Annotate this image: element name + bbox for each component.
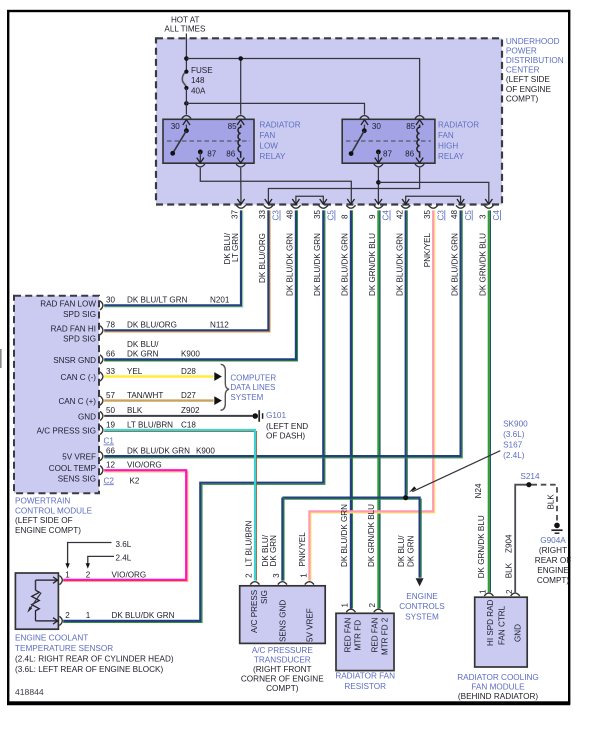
wire 42 DK BLU/DK GRN down to splice bbox=[406, 210, 408, 495]
svg-text:DK BLU/: DK BLU/ bbox=[127, 340, 159, 349]
low relay switch blade bbox=[173, 131, 187, 154]
svg-text:C1: C1 bbox=[104, 437, 115, 446]
wire 48 DK BLU/DK GRN to PCM 66 5V VREF bbox=[104, 210, 462, 457]
svg-text:C5: C5 bbox=[327, 210, 336, 221]
svg-text:2: 2 bbox=[368, 603, 377, 608]
svg-text:SPD SIG: SPD SIG bbox=[63, 335, 96, 344]
svg-text:87: 87 bbox=[383, 149, 393, 158]
exit arrow 3 bbox=[292, 199, 299, 204]
connector arc exit 3 bbox=[291, 205, 300, 208]
svg-text:33: 33 bbox=[258, 209, 267, 219]
svg-text:19: 19 bbox=[106, 420, 116, 429]
svg-text:3: 3 bbox=[272, 573, 281, 578]
wire fuse to low relay 30 bbox=[185, 88, 187, 115]
svg-text:148: 148 bbox=[191, 76, 205, 85]
svg-text:12: 12 bbox=[106, 461, 116, 470]
svg-text:DK GRN: DK GRN bbox=[269, 535, 278, 567]
exit arrow 4 bbox=[320, 199, 327, 204]
svg-text:DK BLU/DK GRN: DK BLU/DK GRN bbox=[396, 233, 405, 296]
svg-text:N201: N201 bbox=[210, 296, 230, 305]
junction at low relay 85 branch bbox=[238, 56, 243, 61]
fuse 148 40A bbox=[182, 72, 186, 88]
svg-text:37: 37 bbox=[231, 209, 240, 219]
svg-text:OF DASH): OF DASH) bbox=[266, 431, 305, 440]
svg-text:A/C PRESS SIG: A/C PRESS SIG bbox=[37, 426, 96, 435]
svg-text:SK900: SK900 bbox=[503, 420, 528, 429]
svg-text:PNK/YEL: PNK/YEL bbox=[298, 532, 307, 567]
svg-text:TRANSDUCER: TRANSDUCER bbox=[254, 655, 311, 664]
sensor pin1 internal lead bbox=[36, 579, 57, 581]
svg-text:DK BLU/DK GRN: DK BLU/DK GRN bbox=[127, 446, 190, 455]
svg-text:418844: 418844 bbox=[15, 687, 44, 697]
svg-text:SNSR GND: SNSR GND bbox=[53, 356, 96, 365]
high relay switch blade bbox=[351, 131, 364, 154]
svg-text:BLK: BLK bbox=[127, 406, 143, 415]
high relay pin 30 arrow bbox=[361, 120, 368, 125]
svg-text:GND: GND bbox=[78, 412, 96, 421]
svg-text:DK BLU/DK GRN: DK BLU/DK GRN bbox=[313, 233, 322, 296]
svg-text:S214: S214 bbox=[520, 472, 540, 481]
low relay pin 87 arrow bbox=[197, 158, 204, 163]
svg-text:(LEFT SIDE OF: (LEFT SIDE OF bbox=[15, 516, 73, 525]
high relay contact 30 bbox=[362, 128, 367, 133]
svg-text:85: 85 bbox=[406, 122, 416, 131]
svg-text:HI SPD RAD: HI SPD RAD bbox=[486, 600, 495, 646]
wire 37 DK BLU/LT GRN to PCM 30 bbox=[104, 210, 243, 307]
svg-text:30: 30 bbox=[372, 122, 382, 131]
svg-text:FAN: FAN bbox=[438, 131, 454, 140]
radiator fan low relay box bbox=[163, 119, 254, 163]
high relay coil bbox=[417, 125, 420, 158]
svg-text:COMPT): COMPT) bbox=[266, 684, 299, 693]
svg-text:5V VREF: 5V VREF bbox=[62, 452, 96, 461]
high relay contact 87 bbox=[376, 150, 381, 155]
connector arc high relay pin 85 bbox=[415, 116, 424, 119]
connector arc PCM pin at y=330.3 bbox=[100, 326, 103, 335]
svg-text:40A: 40A bbox=[191, 86, 206, 95]
svg-text:CONTROLS: CONTROLS bbox=[399, 602, 445, 611]
connector arc resistor pin at x=350.9 bbox=[346, 609, 355, 612]
callout 3.6L to pin 1 bbox=[68, 543, 112, 567]
svg-text:D27: D27 bbox=[181, 391, 196, 400]
callout arrow SK900/S167 to splice bbox=[412, 451, 500, 492]
connector arc transducer pin at x=282.4 bbox=[278, 582, 287, 585]
svg-text:VIO/ORG: VIO/ORG bbox=[112, 570, 147, 579]
low relay pin 30 arrow bbox=[183, 120, 190, 125]
connector arc resistor pin at x=378.4 bbox=[374, 609, 383, 612]
splice SK900 S167 bbox=[403, 495, 408, 500]
connector arc high relay pin 87 bbox=[374, 164, 383, 167]
svg-text:TEMPERATURE SENSOR: TEMPERATURE SENSOR bbox=[15, 644, 113, 653]
svg-text:RADIATOR FAN: RADIATOR FAN bbox=[335, 672, 395, 681]
svg-text:FAN CTRL: FAN CTRL bbox=[497, 605, 506, 645]
high relay blade end bbox=[349, 151, 354, 156]
svg-text:(3.6L: LEFT REAR OF ENGINE BLO: (3.6L: LEFT REAR OF ENGINE BLOCK) bbox=[15, 665, 163, 674]
high relay pin 85 arrow bbox=[416, 120, 423, 125]
svg-text:1: 1 bbox=[341, 603, 350, 608]
high relay pin 30 stem bbox=[363, 125, 365, 131]
svg-text:78: 78 bbox=[106, 321, 116, 330]
svg-text:ENGINE COMPT): ENGINE COMPT) bbox=[15, 526, 81, 535]
junction below fuse bbox=[184, 101, 189, 106]
svg-text:1: 1 bbox=[299, 573, 308, 578]
svg-text:DK BLU/DK GRN: DK BLU/DK GRN bbox=[341, 233, 350, 296]
svg-text:MTR FD: MTR FD bbox=[353, 620, 362, 651]
wire high relay 87 to exit 9 bbox=[377, 168, 379, 204]
svg-text:COMPT): COMPT) bbox=[506, 94, 539, 103]
connector arc fan module pin at x=515.2 bbox=[511, 593, 520, 596]
connector arc low relay pin 85 bbox=[236, 116, 245, 119]
svg-text:48: 48 bbox=[450, 209, 459, 219]
wire 35 PNK/YEL to transducer 5V VREF bbox=[311, 210, 435, 580]
radiator fan high relay box bbox=[342, 119, 435, 163]
svg-text:FUSE: FUSE bbox=[191, 66, 213, 75]
svg-text:33: 33 bbox=[106, 367, 116, 376]
svg-text:48: 48 bbox=[286, 209, 295, 219]
svg-text:SENS SIG: SENS SIG bbox=[58, 475, 96, 484]
svg-text:35: 35 bbox=[313, 209, 322, 219]
brace computer data lines bbox=[221, 364, 230, 410]
junction high relay 87 branch bbox=[376, 180, 381, 185]
svg-text:3.6L: 3.6L bbox=[116, 540, 132, 549]
svg-text:C5: C5 bbox=[464, 210, 473, 221]
underhood power distribution center box bbox=[156, 38, 502, 204]
wire 35 DK BLU/DK GRN to coolant sensor pin 2 bbox=[63, 210, 325, 622]
svg-text:ENGINE: ENGINE bbox=[537, 566, 569, 575]
wire jumper exit 48 to exit 35 bbox=[296, 196, 323, 203]
connector arc PCM pin at y=415.9 bbox=[100, 411, 103, 420]
svg-text:50: 50 bbox=[106, 406, 116, 415]
engine coolant temperature sensor box bbox=[15, 573, 58, 629]
svg-text:2: 2 bbox=[65, 611, 70, 620]
svg-text:POWERTRAIN: POWERTRAIN bbox=[15, 496, 70, 505]
low relay blade end bbox=[170, 151, 175, 156]
svg-text:OF ENGINE: OF ENGINE bbox=[506, 85, 552, 94]
wire BLK Z904 fan module pin 2 to S214 bbox=[515, 485, 526, 593]
svg-text:HOT AT: HOT AT bbox=[171, 16, 200, 25]
svg-text:POWER: POWER bbox=[506, 47, 537, 56]
wire splice to transducer SENS GND bbox=[283, 498, 285, 581]
svg-text:85: 85 bbox=[228, 122, 238, 131]
svg-text:DK BLU/ORG: DK BLU/ORG bbox=[258, 233, 267, 283]
svg-text:Z902: Z902 bbox=[181, 406, 200, 415]
connector arc sensor pin 2 bbox=[59, 616, 62, 625]
svg-text:RAD FAN LOW: RAD FAN LOW bbox=[40, 299, 96, 308]
svg-text:35: 35 bbox=[423, 209, 432, 219]
radiator cooling fan module box bbox=[475, 597, 528, 667]
svg-text:DK GRN/DK BLU: DK GRN/DK BLU bbox=[368, 233, 377, 296]
svg-text:COOL TEMP: COOL TEMP bbox=[49, 464, 96, 473]
svg-text:SENS GND: SENS GND bbox=[279, 600, 288, 642]
svg-text:66: 66 bbox=[106, 446, 116, 455]
junction above fuse bbox=[184, 56, 189, 61]
svg-text:(BEHIND RADIATOR): (BEHIND RADIATOR) bbox=[458, 692, 538, 701]
wire high relay 87 branch to exit 3 bbox=[378, 182, 488, 203]
wire unfused feed to relay coil 85 pins bbox=[186, 59, 419, 115]
svg-text:N24: N24 bbox=[474, 483, 483, 498]
low relay pin 86 arrow bbox=[237, 158, 244, 163]
low relay contact 30 bbox=[184, 128, 189, 133]
low relay 87 stem bbox=[199, 152, 201, 162]
connector arc low relay pin 30 bbox=[182, 116, 191, 119]
svg-text:DK BLU/DK GRN: DK BLU/DK GRN bbox=[450, 233, 459, 296]
high relay 87 stem bbox=[377, 152, 379, 162]
wire fused feed to high relay 30 bbox=[186, 103, 364, 114]
connector arc exit 7 bbox=[401, 205, 410, 208]
connector arc PCM pin at y=305.4 bbox=[100, 301, 103, 310]
connector arc fan module pin at x=488.8 bbox=[484, 593, 493, 596]
data line arrow CAN C(+) bbox=[214, 396, 222, 405]
wire 50 BLK to G101 bbox=[104, 415, 252, 417]
svg-text:CAN C (-): CAN C (-) bbox=[60, 373, 96, 382]
wire splice to engine controls bbox=[282, 499, 421, 578]
svg-text:RAD FAN HI: RAD FAN HI bbox=[51, 324, 96, 333]
dashed BLK wire to ground bbox=[532, 485, 558, 522]
sensor pin2 arrow bbox=[53, 618, 58, 624]
svg-text:K900: K900 bbox=[181, 350, 200, 359]
connector arc transducer pin at x=254.9 bbox=[250, 582, 259, 585]
a/c pressure transducer box bbox=[240, 586, 326, 644]
exit arrow 2 bbox=[265, 199, 272, 204]
wire jumper exit 42 to exit 48 bbox=[406, 196, 461, 203]
ground G101 symbol bbox=[252, 413, 258, 419]
svg-text:C3: C3 bbox=[272, 210, 281, 221]
connector arc sensor pin 1 bbox=[59, 576, 62, 585]
svg-text:2: 2 bbox=[245, 573, 254, 578]
svg-text:(2.4L: RIGHT REAR OF CYLINDER: (2.4L: RIGHT REAR OF CYLINDER HEAD) bbox=[15, 654, 174, 663]
radiator fan resistor box bbox=[336, 613, 394, 670]
connector arc high relay pin 86 bbox=[415, 164, 424, 167]
connector arc PCM pin at y=359.4 bbox=[100, 355, 103, 364]
connector arc PCM pin at y=456.1 bbox=[100, 452, 103, 461]
connector arc low relay pin 86 bbox=[236, 164, 245, 167]
svg-text:LT BLU/BRN: LT BLU/BRN bbox=[127, 420, 173, 429]
exit arrow 7 bbox=[402, 199, 409, 204]
svg-text:C18: C18 bbox=[181, 420, 196, 429]
svg-text:GND: GND bbox=[514, 624, 523, 642]
svg-text:66: 66 bbox=[106, 350, 116, 359]
callout 2.4L to pin 2 bbox=[88, 556, 114, 566]
svg-text:DK GRN/DK BLU: DK GRN/DK BLU bbox=[477, 515, 486, 578]
sensor pin1 arrow bbox=[53, 577, 58, 583]
svg-text:Z904: Z904 bbox=[505, 534, 514, 553]
svg-text:DATA LINES: DATA LINES bbox=[230, 383, 275, 392]
low relay contact 87 bbox=[198, 150, 203, 155]
svg-text:PNK/YEL: PNK/YEL bbox=[423, 233, 432, 268]
wire 33 YEL CAN C(-) bbox=[104, 375, 213, 377]
svg-text:LT BLU/BRN: LT BLU/BRN bbox=[244, 520, 253, 566]
connector arc transducer pin at x=309.4 bbox=[305, 582, 314, 585]
svg-text:RED FAN: RED FAN bbox=[343, 617, 352, 652]
svg-text:1: 1 bbox=[479, 589, 488, 594]
svg-text:ENGINE: ENGINE bbox=[406, 592, 438, 601]
wire 57 TAN/WHT CAN C(+) bbox=[104, 399, 213, 401]
svg-text:BLK: BLK bbox=[547, 494, 556, 510]
svg-text:SYSTEM: SYSTEM bbox=[405, 612, 439, 621]
svg-text:ENGINE COOLANT: ENGINE COOLANT bbox=[15, 634, 88, 643]
wire 12 VIO/ORG to coolant sensor pin 1 bbox=[63, 472, 188, 582]
svg-text:TAN/WHT: TAN/WHT bbox=[127, 391, 163, 400]
svg-text:C3: C3 bbox=[436, 210, 445, 221]
svg-text:5V VREF: 5V VREF bbox=[306, 608, 315, 642]
svg-text:HIGH: HIGH bbox=[438, 142, 458, 151]
svg-text:RADIATOR COOLING: RADIATOR COOLING bbox=[457, 673, 539, 682]
engine controls arrow bbox=[416, 578, 424, 586]
wire 9 DK GRN/DK BLU to fan resistor pin 2 bbox=[379, 210, 381, 608]
svg-text:8: 8 bbox=[341, 214, 350, 219]
svg-text:DK GRN/DK BLU: DK GRN/DK BLU bbox=[479, 233, 488, 296]
low relay pin 85 arrow bbox=[237, 120, 244, 125]
connector arc high relay pin 30 bbox=[360, 116, 369, 119]
fuse top terminal bbox=[184, 70, 188, 74]
svg-text:SPD SIG: SPD SIG bbox=[63, 310, 96, 319]
svg-text:2: 2 bbox=[505, 589, 514, 594]
svg-text:COMPUTER: COMPUTER bbox=[230, 374, 276, 383]
svg-text:SYSTEM: SYSTEM bbox=[230, 393, 263, 402]
svg-text:9: 9 bbox=[368, 214, 377, 219]
svg-text:C2: C2 bbox=[104, 476, 115, 485]
svg-text:YEL: YEL bbox=[127, 367, 143, 376]
svg-text:CORNER OF ENGINE: CORNER OF ENGINE bbox=[241, 674, 324, 683]
exit arrow 1 bbox=[237, 199, 244, 204]
svg-text:57: 57 bbox=[106, 391, 116, 400]
svg-text:DK BLU/LT GRN: DK BLU/LT GRN bbox=[127, 296, 188, 305]
stray margin mark bbox=[0, 349, 2, 368]
svg-text:DISTRIBUTION: DISTRIBUTION bbox=[506, 56, 564, 65]
svg-text:DK GRN: DK GRN bbox=[127, 350, 159, 359]
svg-text:30: 30 bbox=[171, 122, 181, 131]
wire 33 DK BLU/ORG to PCM 78 bbox=[104, 210, 270, 332]
wire 8 DK BLU/DK GRN to fan resistor pin 1 bbox=[352, 210, 354, 608]
connector arc exit 2 bbox=[264, 205, 273, 208]
connector arc exit 10 bbox=[484, 205, 493, 208]
connector arc PCM pin at y=376.5 bbox=[100, 372, 103, 381]
connector arc exit 5 bbox=[346, 205, 355, 208]
high relay pin 87 arrow bbox=[375, 158, 382, 163]
svg-text:S167: S167 bbox=[503, 441, 523, 450]
sensor pin2 internal lead bbox=[36, 620, 57, 622]
svg-text:(RIGHT: (RIGHT bbox=[539, 546, 567, 555]
svg-text:REAR OF: REAR OF bbox=[535, 556, 571, 565]
connector arc PCM pin at y=470.2 bbox=[100, 466, 103, 475]
svg-text:RADIATOR: RADIATOR bbox=[438, 121, 479, 130]
svg-text:CONTROL MODULE: CONTROL MODULE bbox=[15, 506, 93, 515]
low relay pin 30 stem bbox=[185, 125, 187, 131]
svg-text:1: 1 bbox=[86, 611, 91, 620]
exit arrow 5 bbox=[347, 199, 354, 204]
wire 3 DK GRN/DK BLU N24 to fan module pin 1 bbox=[489, 210, 491, 592]
high relay pin 86 arrow bbox=[416, 158, 423, 163]
low relay coil bbox=[238, 125, 241, 158]
svg-text:1: 1 bbox=[65, 570, 70, 579]
svg-text:2: 2 bbox=[86, 570, 91, 579]
svg-text:RELAY: RELAY bbox=[260, 152, 287, 161]
fuse bottom terminal bbox=[184, 86, 188, 90]
svg-text:C4: C4 bbox=[382, 210, 391, 221]
svg-text:DK BLU/ORG: DK BLU/ORG bbox=[127, 321, 177, 330]
svg-text:FAN MODULE: FAN MODULE bbox=[471, 683, 525, 692]
svg-text:G904A: G904A bbox=[540, 536, 566, 545]
svg-text:DK BLU/DK GRN: DK BLU/DK GRN bbox=[286, 233, 295, 296]
exit arrow 10 bbox=[485, 199, 492, 204]
svg-text:ALL TIMES: ALL TIMES bbox=[164, 24, 206, 33]
svg-text:UNDERHOOD: UNDERHOOD bbox=[506, 37, 560, 46]
svg-text:42: 42 bbox=[395, 209, 404, 219]
svg-text:LOW: LOW bbox=[260, 142, 279, 151]
svg-text:K900: K900 bbox=[196, 446, 215, 455]
thermistor arrow shaft bbox=[29, 593, 42, 611]
svg-text:LT GRN: LT GRN bbox=[231, 233, 240, 262]
exit arrow 6 bbox=[375, 199, 382, 204]
wire hot-at-all-times feed down to fuse bbox=[185, 34, 187, 72]
svg-text:86: 86 bbox=[226, 149, 236, 158]
svg-text:FAN: FAN bbox=[260, 131, 276, 140]
wire branch down to low relay 85 bbox=[240, 59, 242, 115]
svg-text:DK BLU/DK GRN: DK BLU/DK GRN bbox=[340, 504, 349, 567]
svg-text:DK GRN/DK BLU: DK GRN/DK BLU bbox=[367, 504, 376, 567]
wire low relay 86 to exit 37 bbox=[240, 168, 242, 204]
svg-text:(LEFT SIDE: (LEFT SIDE bbox=[506, 75, 551, 84]
svg-text:3: 3 bbox=[478, 214, 487, 219]
svg-text:2.4L: 2.4L bbox=[116, 553, 132, 562]
exit arrow 9 bbox=[457, 199, 464, 204]
connector arc PCM pin at y=430.0 bbox=[100, 425, 103, 434]
svg-text:MTR FD 2: MTR FD 2 bbox=[380, 617, 389, 655]
svg-text:G101: G101 bbox=[266, 411, 286, 420]
svg-text:RADIATOR: RADIATOR bbox=[260, 121, 301, 130]
svg-text:VIO/ORG: VIO/ORG bbox=[127, 461, 162, 470]
connector arc exit 6 bbox=[374, 205, 383, 208]
connector arc exit 9 bbox=[456, 205, 465, 208]
connector arc low relay pin 87 bbox=[196, 164, 205, 167]
svg-text:K2: K2 bbox=[130, 476, 140, 485]
connector arc exit 4 bbox=[319, 205, 328, 208]
svg-text:(RIGHT FRONT: (RIGHT FRONT bbox=[253, 665, 312, 674]
wire low relay 87 to exit 8 bbox=[200, 168, 351, 204]
svg-text:30: 30 bbox=[106, 296, 116, 305]
svg-text:RESISTOR: RESISTOR bbox=[344, 682, 386, 691]
powertrain control module box bbox=[14, 296, 99, 494]
svg-text:DK GRN: DK GRN bbox=[406, 535, 415, 567]
wire high relay 86 to exit 33 bbox=[268, 168, 419, 204]
svg-text:A/C PRESS: A/C PRESS bbox=[250, 589, 259, 633]
svg-text:CENTER: CENTER bbox=[506, 66, 540, 75]
ground G904A symbol bbox=[554, 523, 560, 529]
svg-text:RED FAN: RED FAN bbox=[370, 617, 379, 652]
svg-text:SIG: SIG bbox=[260, 590, 269, 604]
svg-text:C4: C4 bbox=[492, 210, 501, 221]
svg-text:(LEFT END: (LEFT END bbox=[266, 422, 308, 431]
wire 19 LT BLU/BRN to transducer A/C PRESS SIG bbox=[104, 432, 256, 581]
svg-text:N112: N112 bbox=[210, 321, 229, 330]
connector arc PCM pin at y=400.6 bbox=[100, 396, 103, 405]
svg-text:BLK: BLK bbox=[505, 562, 514, 578]
splice S214 bbox=[526, 482, 531, 487]
svg-text:(3.6L): (3.6L) bbox=[503, 430, 525, 439]
svg-text:DK BLU/: DK BLU/ bbox=[397, 535, 406, 567]
svg-text:(2.4L): (2.4L) bbox=[503, 451, 525, 460]
svg-text:DK BLU/DK GRN: DK BLU/DK GRN bbox=[112, 611, 175, 620]
connector arc exit 8 bbox=[429, 205, 438, 208]
svg-text:A/C PRESSURE: A/C PRESSURE bbox=[252, 646, 314, 655]
svg-text:CAN C (+): CAN C (+) bbox=[58, 397, 96, 406]
svg-text:86: 86 bbox=[405, 149, 415, 158]
svg-text:RELAY: RELAY bbox=[438, 152, 465, 161]
connector arc exit 1 bbox=[236, 205, 245, 208]
data line arrow CAN C(-) bbox=[214, 372, 222, 381]
wire 48 DK BLU/DK GRN to PCM 66 SNSR GND bbox=[104, 210, 297, 361]
svg-text:D28: D28 bbox=[181, 367, 196, 376]
